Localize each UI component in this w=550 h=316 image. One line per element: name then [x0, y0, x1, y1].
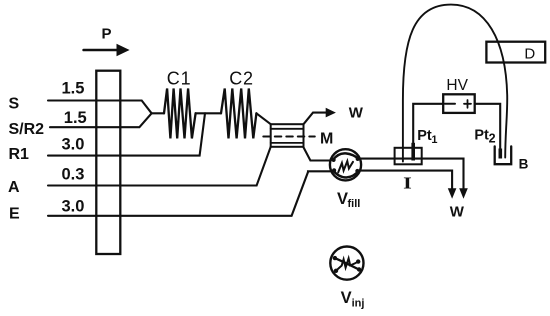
wire mixer to W [304, 113, 328, 125]
wire C2 to mixer [256, 113, 270, 124]
svg-text:W: W [450, 204, 465, 221]
svg-text:2: 2 [489, 132, 496, 146]
buffer vial B [495, 146, 512, 164]
svg-text:E: E [9, 206, 20, 223]
svg-text:S: S [9, 95, 20, 112]
electrode Pt1 [411, 143, 415, 161]
HV supply box [443, 94, 475, 113]
wire valve to waste (lower) [361, 171, 452, 190]
svg-text:Pt: Pt [417, 128, 432, 144]
svg-text:C2: C2 [229, 69, 254, 89]
svg-text:HV: HV [446, 77, 468, 94]
svg-text:fill: fill [348, 198, 361, 210]
svg-text:inj: inj [352, 298, 365, 310]
wire mixer to valve [303, 147, 331, 161]
HV polarity marks [445, 103, 455, 105]
coil C2 [221, 89, 256, 139]
svg-text:1: 1 [431, 134, 437, 146]
wire merged carrier [152, 112, 164, 114]
wire HV to Pt2 [475, 104, 501, 149]
wire C1 to C2 [196, 112, 221, 114]
wire valve to interface (upper) [361, 159, 463, 190]
pump bar [96, 71, 120, 254]
capillary [403, 5, 507, 162]
arrow P [84, 49, 120, 52]
wire R1 [48, 113, 205, 155]
wire A [48, 147, 271, 186]
interface I box [395, 148, 422, 165]
svg-text:P: P [102, 26, 112, 43]
svg-text:R1: R1 [9, 146, 30, 163]
svg-text:M: M [320, 130, 333, 147]
mixer membrane dashed [263, 136, 315, 138]
svg-text:W: W [349, 105, 364, 122]
svg-text:Pt: Pt [474, 127, 489, 143]
svg-text:I: I [403, 175, 412, 193]
wire E [48, 171, 331, 216]
valve Vinj [330, 247, 363, 280]
wire S/R2 [50, 113, 152, 127]
svg-text:3.0: 3.0 [62, 135, 85, 153]
wire Pt1 to HV [413, 104, 443, 143]
coil C1 [164, 89, 196, 139]
svg-text:A: A [8, 179, 20, 196]
svg-text:1.5: 1.5 [64, 109, 87, 127]
wire S [48, 101, 152, 114]
detector D box [486, 42, 545, 63]
mixer M body [271, 124, 304, 147]
svg-text:D: D [524, 45, 535, 62]
svg-text:C1: C1 [167, 69, 192, 89]
electrode Pt2 [499, 149, 503, 159]
valve Vfill [330, 149, 361, 180]
svg-text:S/R2: S/R2 [9, 121, 45, 138]
svg-text:1.5: 1.5 [62, 79, 85, 97]
svg-text:V: V [337, 190, 348, 208]
svg-text:V: V [341, 289, 352, 307]
svg-text:0.3: 0.3 [62, 165, 85, 183]
svg-text:B: B [519, 156, 529, 171]
svg-text:3.0: 3.0 [62, 197, 85, 215]
